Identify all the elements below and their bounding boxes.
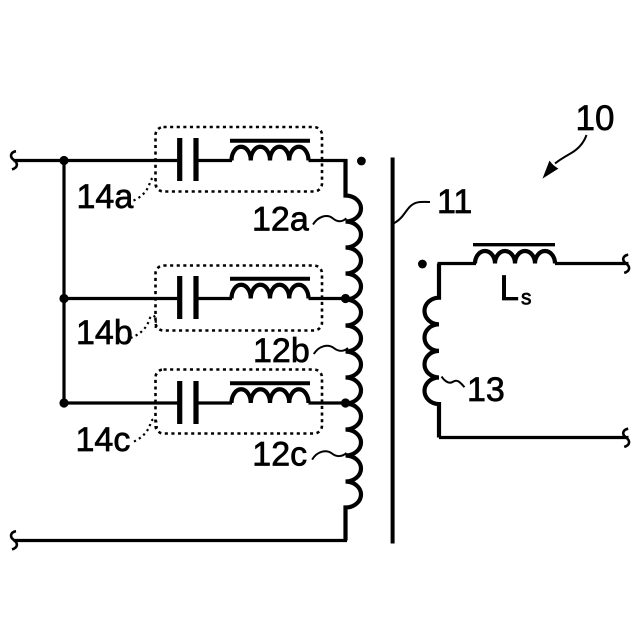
wire Ls to right edge xyxy=(555,262,629,265)
dashed box 14c xyxy=(156,370,323,434)
inductor humps c xyxy=(232,389,309,403)
polarity dot primary xyxy=(357,157,366,166)
wire cap-to-inductor b xyxy=(198,297,232,300)
inductor core bar a xyxy=(230,139,310,143)
leader 12b xyxy=(314,346,348,354)
svg-text:L: L xyxy=(500,269,519,308)
arrowhead 10 xyxy=(544,162,558,178)
svg-text:14c: 14c xyxy=(76,421,131,459)
wire secondary top xyxy=(438,262,477,265)
capacitor in 14b xyxy=(180,276,196,319)
inductor humps b xyxy=(232,285,309,299)
capacitor in 14a xyxy=(180,138,196,181)
svg-text:12b: 12b xyxy=(253,332,310,370)
wire cap-to-inductor c xyxy=(198,401,232,404)
node junction c-left xyxy=(59,398,68,407)
wire bottom primary xyxy=(14,539,348,542)
leader 12a xyxy=(313,216,346,224)
svg-text:12c: 12c xyxy=(252,435,307,473)
wire branch c xyxy=(64,401,177,404)
leader 13 xyxy=(442,377,465,388)
leader 14c xyxy=(134,419,157,442)
inductor Ls bar xyxy=(473,243,555,246)
leader 11 xyxy=(393,202,430,224)
svg-text:11: 11 xyxy=(437,183,472,221)
transformer core xyxy=(391,158,395,544)
wire left bus xyxy=(62,161,65,404)
inductor core bar b xyxy=(230,277,310,281)
svg-text:13: 13 xyxy=(467,371,505,409)
svg-text:14b: 14b xyxy=(76,314,133,352)
svg-text:12a: 12a xyxy=(252,201,309,239)
node junction winding b xyxy=(341,294,350,303)
inductor core bar c xyxy=(230,381,310,385)
wire break top-left xyxy=(11,151,17,169)
secondary winding 13 xyxy=(425,264,439,438)
node junction b-left xyxy=(59,294,68,303)
capacitor in 14c xyxy=(180,381,196,424)
leader 14a xyxy=(134,178,157,201)
polarity dot secondary xyxy=(418,260,427,269)
leader 14b xyxy=(131,316,156,339)
inductor humps a xyxy=(232,147,309,161)
wire branch b xyxy=(64,297,177,300)
wire inductor-to-bus c xyxy=(309,401,348,404)
wire cap-to-inductor a xyxy=(198,159,232,162)
node junction a xyxy=(59,156,68,165)
svg-text:10: 10 xyxy=(576,99,615,138)
wire break top-right xyxy=(623,255,629,273)
primary winding 12a/12b/12c xyxy=(346,159,361,541)
leader 12c xyxy=(312,451,346,459)
wire inductor-to-bus a xyxy=(309,159,348,162)
wire break bottom-left xyxy=(11,531,17,549)
wire branch a xyxy=(14,159,178,162)
dashed box 14a xyxy=(156,127,323,192)
svg-text:14a: 14a xyxy=(77,178,134,216)
svg-text:s: s xyxy=(521,287,532,310)
wire break bottom-right xyxy=(623,429,629,447)
wire inductor-to-bus b xyxy=(309,297,348,300)
leader arrow 10 xyxy=(555,135,587,164)
dashed box 14b xyxy=(156,266,323,331)
node junction winding c xyxy=(341,398,350,407)
wire secondary bottom xyxy=(439,436,629,439)
inductor Ls humps xyxy=(475,251,555,264)
